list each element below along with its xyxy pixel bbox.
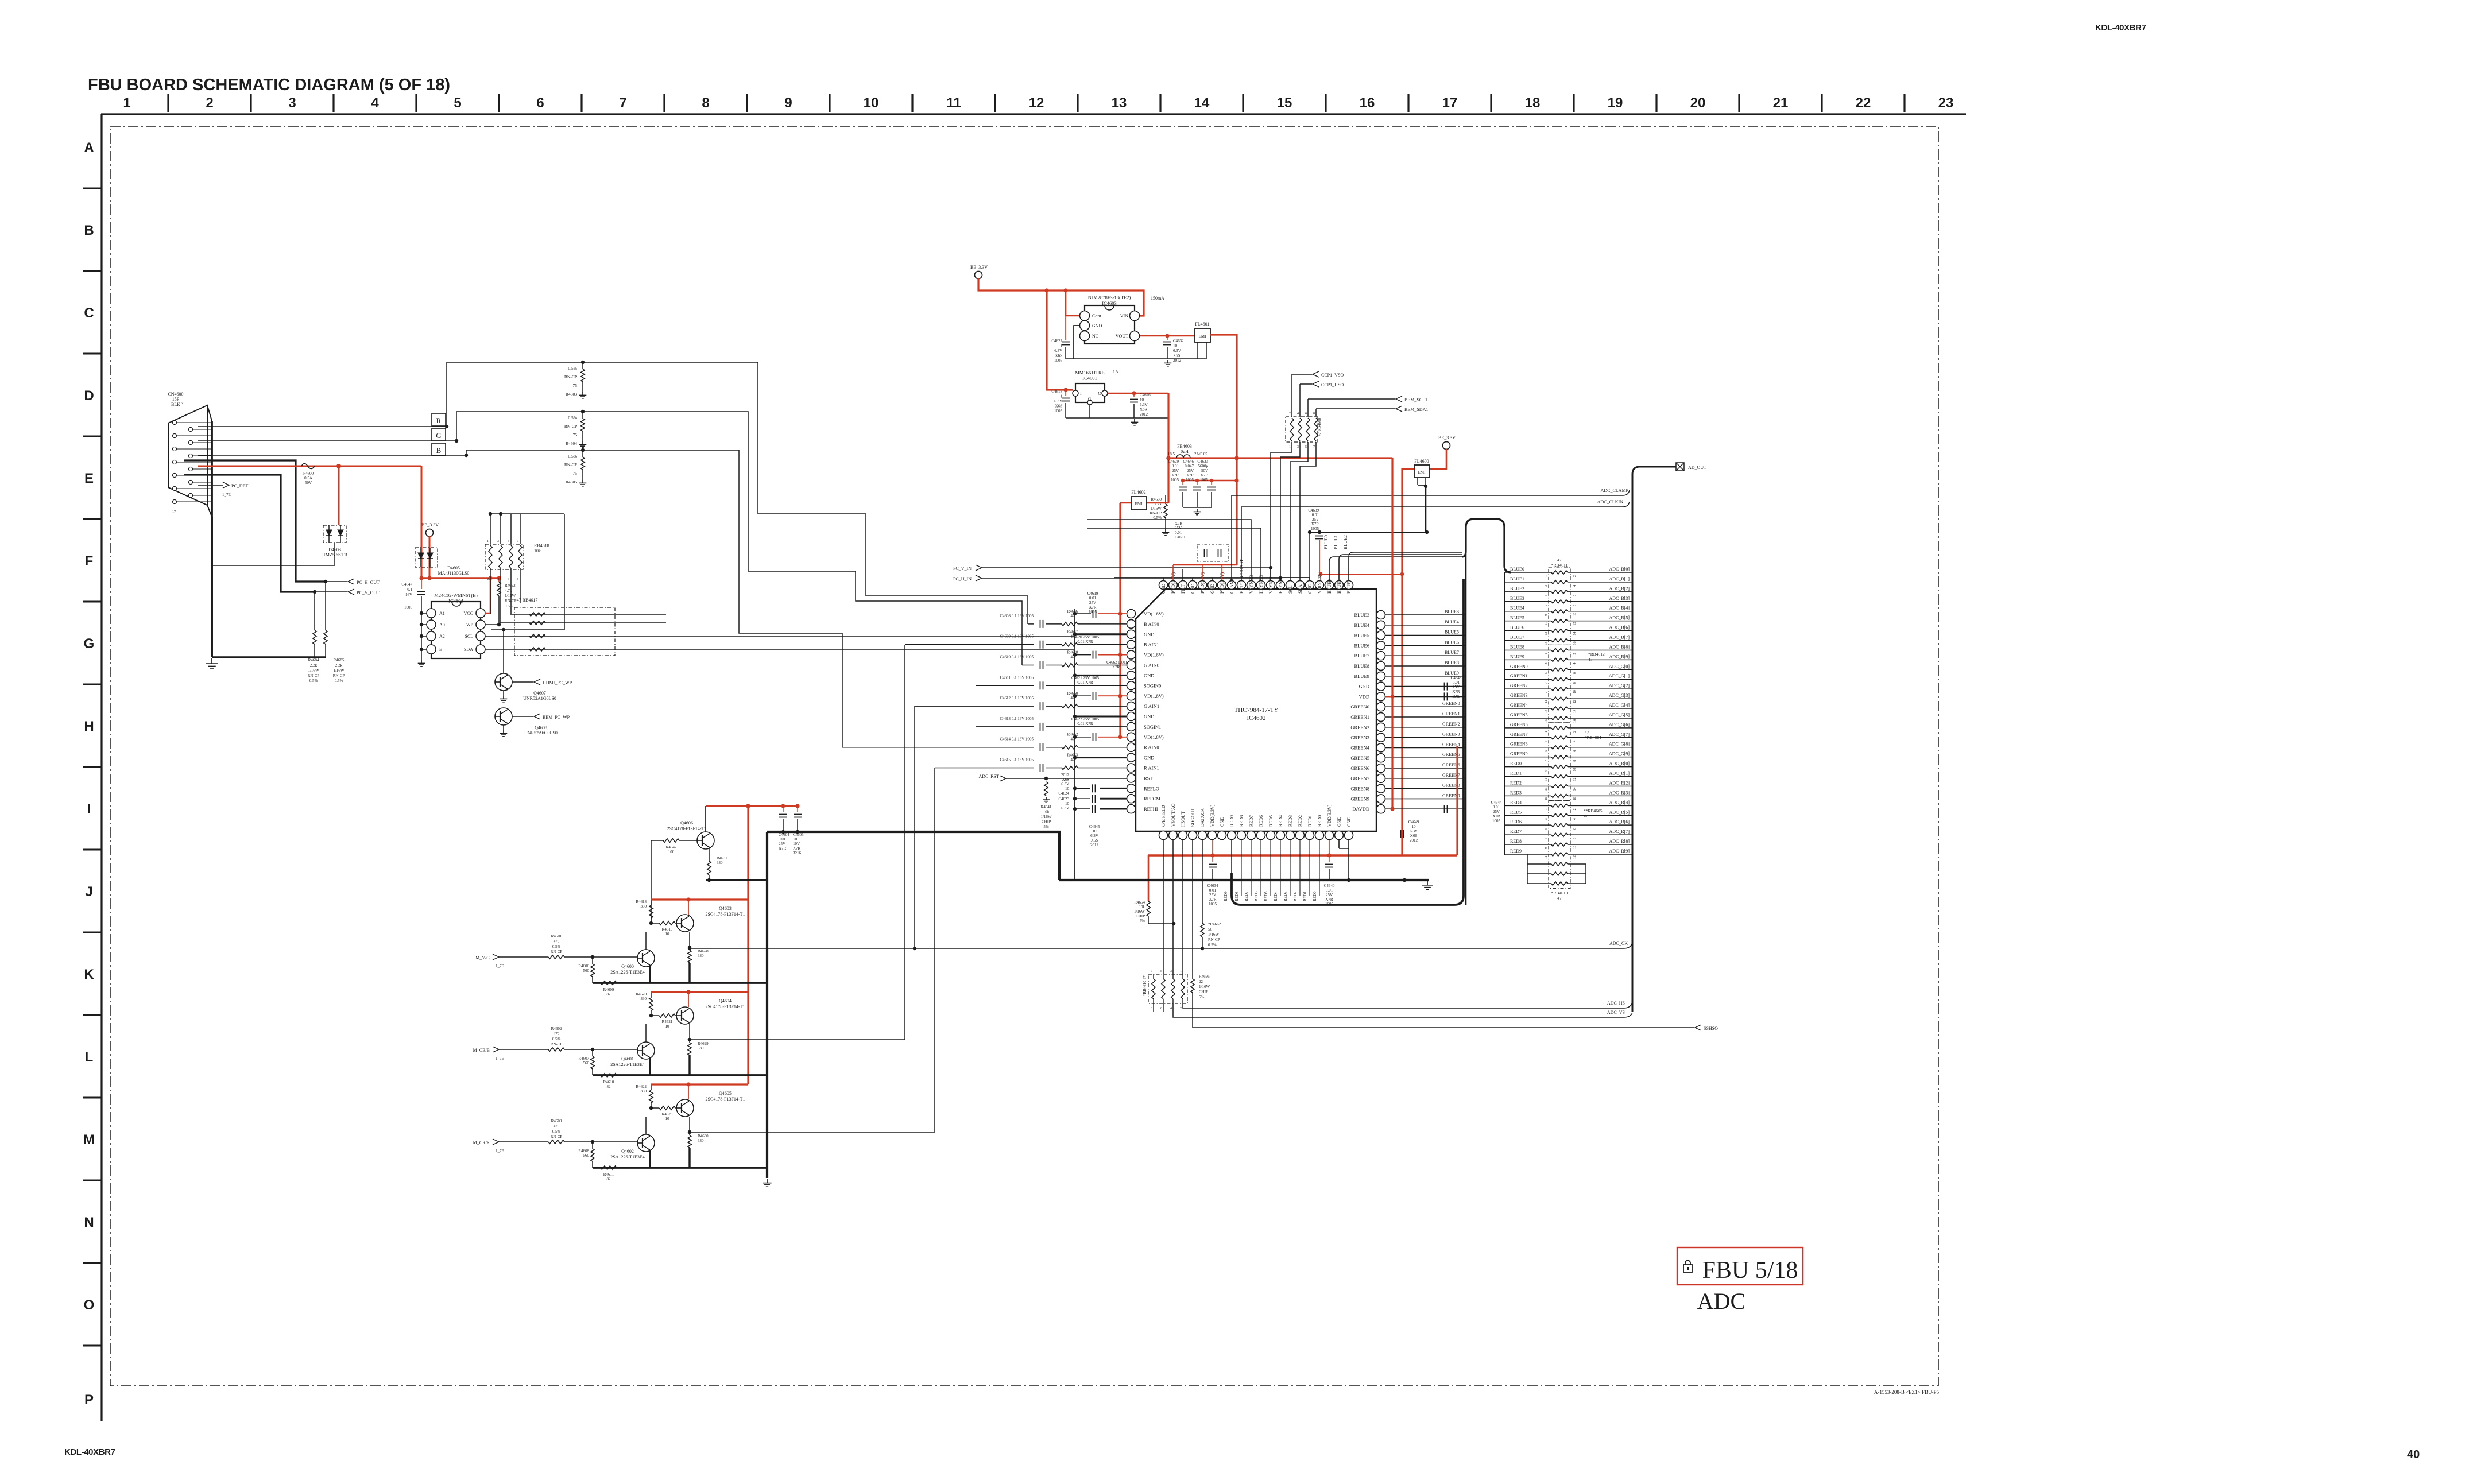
svg-text:R4685: R4685 [334, 658, 345, 662]
svg-text:17: 17 [1442, 95, 1458, 111]
svg-text:X7R: X7R [1492, 814, 1500, 819]
svg-text:F4600: F4600 [303, 471, 314, 476]
svg-text:RED2: RED2 [1510, 780, 1522, 785]
svg-text:ADC_R[0]: ADC_R[0] [1609, 761, 1630, 766]
svg-text:25V: 25V [1187, 468, 1194, 473]
svg-text:47: 47 [1071, 655, 1075, 660]
svg-text:1005: 1005 [1492, 819, 1501, 823]
svg-text:UNR52A6G0LS0: UNR52A6G0LS0 [524, 730, 558, 735]
svg-text:18.5: 18.5 [1168, 452, 1175, 456]
svg-text:RED3: RED3 [1288, 815, 1293, 827]
svg-text:GREEN1: GREEN1 [1510, 673, 1528, 679]
svg-text:47 RB4608: 47 RB4608 [1317, 417, 1322, 436]
svg-text:ADC: ADC [1697, 1288, 1745, 1314]
svg-text:X6S: X6S [1055, 404, 1063, 409]
svg-text:5: 5 [1305, 445, 1307, 449]
svg-text:CCP1_HSO: CCP1_HSO [1321, 382, 1344, 388]
svg-text:2012: 2012 [1090, 843, 1099, 847]
svg-text:RED6: RED6 [1254, 891, 1259, 901]
svg-text:O: O [84, 1297, 95, 1313]
svg-text:2: 2 [1289, 412, 1291, 416]
svg-text:9: 9 [1545, 847, 1548, 849]
svg-text:ADC_R[2]: ADC_R[2] [1609, 780, 1630, 785]
svg-text:X6S: X6S [1091, 838, 1098, 843]
svg-text:1: 1 [1061, 394, 1063, 399]
svg-text:ADC_B[9]: ADC_B[9] [1609, 654, 1630, 659]
svg-text:ADC_R[5]: ADC_R[5] [1609, 809, 1630, 815]
svg-text:GREEN5: GREEN5 [1350, 755, 1369, 761]
svg-text:6.3V: 6.3V [1410, 829, 1418, 834]
svg-text:GND: GND [1144, 631, 1154, 637]
svg-text:1/16W: 1/16W [308, 668, 319, 673]
svg-text:Q4601: Q4601 [621, 1056, 634, 1061]
svg-text:0.5%: 0.5% [568, 415, 577, 420]
svg-text:1: 1 [1545, 808, 1548, 810]
svg-text:100: 100 [668, 850, 675, 854]
svg-text:14: 14 [1573, 632, 1577, 636]
svg-text:X7R: X7R [1452, 689, 1460, 694]
svg-text:47: 47 [1585, 730, 1589, 735]
svg-text:2A/0.05: 2A/0.05 [1194, 452, 1207, 456]
svg-text:13: 13 [1112, 95, 1127, 111]
svg-text:82: 82 [607, 992, 611, 997]
svg-text:R4646: R4646 [1067, 609, 1078, 614]
svg-text:RED7: RED7 [1249, 815, 1254, 827]
svg-text:GREEN4: GREEN4 [1510, 703, 1528, 708]
svg-text:RED6: RED6 [1259, 815, 1264, 827]
svg-text:C4623: C4623 [1058, 797, 1069, 801]
svg-text:VD(1.8V): VD(1.8V) [1144, 652, 1164, 658]
svg-text:5%: 5% [1199, 995, 1205, 999]
svg-text:1_7E: 1_7E [496, 1149, 504, 1153]
svg-text:0.01 X7R: 0.01 X7R [1077, 722, 1093, 726]
svg-text:SOGIN0: SOGIN0 [1144, 683, 1161, 688]
svg-text:RN-CP: RN-CP [564, 374, 577, 379]
svg-text:470: 470 [554, 1124, 560, 1129]
svg-text:C4643: C4643 [1451, 676, 1462, 680]
svg-text:E: E [84, 471, 94, 486]
svg-text:1/16W: 1/16W [505, 594, 516, 598]
svg-text:R4641: R4641 [1041, 805, 1052, 809]
svg-text:MA4J1130GLS0: MA4J1130GLS0 [438, 571, 470, 576]
svg-text:C4647: C4647 [401, 582, 412, 587]
svg-text:1005: 1005 [1186, 478, 1194, 482]
svg-text:BLUE0: BLUE0 [1327, 579, 1332, 594]
svg-text:0.5%: 0.5% [552, 944, 561, 949]
svg-text:9: 9 [1545, 770, 1548, 772]
svg-text:47: 47 [1071, 634, 1075, 639]
svg-text:BE_3.3V: BE_3.3V [421, 522, 439, 528]
svg-text:11: 11 [1545, 778, 1548, 781]
svg-text:1_7E: 1_7E [496, 1056, 504, 1061]
svg-text:Q4604: Q4604 [719, 998, 732, 1003]
svg-text:RED1: RED1 [1303, 891, 1307, 901]
svg-text:1005: 1005 [404, 605, 413, 610]
svg-text:VSOUT/AO: VSOUT/AO [1171, 803, 1176, 827]
svg-text:**RB4605: **RB4605 [1584, 808, 1603, 813]
svg-text:G: G [436, 431, 441, 440]
svg-text:2: 2 [487, 578, 489, 581]
svg-text:6: 6 [1573, 750, 1577, 752]
svg-text:ADC_G[1]: ADC_G[1] [1609, 673, 1630, 679]
svg-text:R4692: R4692 [505, 583, 516, 588]
svg-text:ADC_CLKIN: ADC_CLKIN [1597, 499, 1624, 505]
svg-text:X6S: X6S [1173, 354, 1181, 358]
svg-text:*RB4611: *RB4611 [1551, 563, 1568, 568]
svg-text:UNR52A1G0LS0: UNR52A1G0LS0 [523, 696, 556, 701]
svg-text:B: B [436, 446, 442, 455]
svg-text:GND: GND [1346, 816, 1352, 827]
svg-text:M24C02-WMN6T(B): M24C02-WMN6T(B) [434, 592, 478, 598]
svg-text:PC_DET: PC_DET [231, 483, 248, 489]
svg-text:RED4: RED4 [1278, 815, 1283, 827]
svg-text:3: 3 [1297, 445, 1299, 449]
svg-text:R4623: R4623 [662, 1112, 673, 1117]
svg-text:1: 1 [1061, 344, 1063, 348]
svg-text:VDD(3.3V): VDD(3.3V) [1317, 571, 1322, 594]
svg-text:BLUE1: BLUE1 [1337, 579, 1342, 594]
svg-text:R4648: R4648 [1067, 650, 1078, 655]
svg-text:A: A [84, 140, 94, 156]
svg-text:1005: 1005 [1054, 409, 1063, 413]
svg-text:1005: 1005 [1311, 526, 1319, 531]
svg-text:6: 6 [1573, 595, 1577, 596]
svg-text:*RB4612: *RB4612 [1588, 652, 1605, 657]
svg-text:GREEN7: GREEN7 [1350, 776, 1369, 781]
svg-text:X7R: X7R [1089, 605, 1097, 610]
svg-text:RED9: RED9 [1510, 848, 1522, 854]
svg-text:15: 15 [1545, 797, 1548, 800]
svg-text:ADC_B[0]: ADC_B[0] [1609, 567, 1630, 572]
svg-text:B AIN1: B AIN1 [1144, 642, 1159, 648]
svg-text:VCC: VCC [464, 611, 473, 616]
svg-text:0.01: 0.01 [1209, 888, 1217, 893]
svg-text:GND: GND [1161, 583, 1166, 594]
svg-text:AD_OUT: AD_OUT [1688, 465, 1706, 470]
svg-text:47: 47 [1557, 896, 1562, 901]
svg-text:*R4662: *R4662 [1208, 922, 1221, 927]
svg-text:CCP1_VSO: CCP1_VSO [1321, 373, 1344, 378]
svg-text:0.01 X7R: 0.01 X7R [1077, 640, 1093, 644]
svg-text:13: 13 [1545, 787, 1548, 791]
svg-text:ADC_CLAMP: ADC_CLAMP [1601, 488, 1629, 493]
svg-text:1/16W: 1/16W [1040, 815, 1051, 819]
svg-text:6.3V: 6.3V [1054, 348, 1062, 353]
svg-text:R4647: R4647 [1067, 630, 1078, 634]
svg-text:2SC4178-F13F14-T1: 2SC4178-F13F14-T1 [706, 1004, 745, 1009]
svg-text:R4607: R4607 [578, 1056, 589, 1061]
svg-text:GREEN9: GREEN9 [1510, 751, 1528, 757]
svg-text:1: 1 [1545, 653, 1548, 654]
svg-text:N: N [84, 1215, 94, 1230]
svg-text:SCL: SCL [465, 634, 473, 639]
svg-text:2012: 2012 [1140, 412, 1148, 417]
svg-text:X7R: X7R [1175, 521, 1183, 526]
svg-text:I: I [87, 801, 91, 817]
svg-text:C4621 25V 1005: C4621 25V 1005 [1071, 676, 1100, 680]
svg-text:M_Y/G: M_Y/G [475, 955, 490, 960]
svg-text:ADC_B[4]: ADC_B[4] [1609, 606, 1630, 611]
svg-text:6.3V: 6.3V [1173, 348, 1181, 353]
svg-text:B: B [84, 223, 94, 238]
svg-text:Q4600: Q4600 [621, 964, 634, 969]
svg-text:X7R: X7R [793, 846, 801, 851]
svg-text:47: 47 [1584, 813, 1588, 819]
svg-text:BLUE6: BLUE6 [1510, 625, 1524, 630]
svg-text:PC_H_OUT: PC_H_OUT [357, 580, 380, 585]
svg-text:REFCM: REFCM [1144, 796, 1160, 801]
svg-text:IC4602: IC4602 [1247, 715, 1266, 722]
svg-text:ADC_R[1]: ADC_R[1] [1609, 771, 1630, 776]
svg-text:6.3V: 6.3V [1061, 806, 1069, 811]
svg-text:2SA1226-T1E3E4: 2SA1226-T1E3E4 [610, 970, 645, 975]
svg-text:2: 2 [1573, 575, 1577, 577]
svg-text:GREEN8: GREEN8 [1510, 742, 1528, 747]
svg-text:330: 330 [641, 1089, 647, 1094]
svg-text:C4624: C4624 [1058, 791, 1069, 796]
svg-text:6.3V: 6.3V [1061, 782, 1069, 786]
svg-text:0.5%: 0.5% [552, 1129, 561, 1134]
svg-text:G: G [84, 636, 95, 652]
svg-text:*RB4604: *RB4604 [1585, 735, 1601, 740]
svg-text:12: 12 [1029, 95, 1044, 111]
svg-text:ADC_G[9]: ADC_G[9] [1609, 751, 1630, 757]
svg-text:330: 330 [698, 954, 704, 958]
svg-text:EMI: EMI [1418, 470, 1426, 475]
svg-text:50V: 50V [305, 481, 312, 485]
svg-text:X6S: X6S [1410, 834, 1418, 838]
svg-text:F: F [85, 553, 94, 569]
svg-text:SDA: SDA [464, 647, 473, 652]
svg-text:47: 47 [1071, 614, 1075, 618]
svg-text:47: 47 [1557, 557, 1562, 563]
svg-text:R AIN0: R AIN0 [1144, 745, 1159, 750]
svg-text:GND: GND [1210, 583, 1215, 594]
svg-text:2SC4178-F13F14-T1: 2SC4178-F13F14-T1 [706, 1096, 745, 1102]
svg-text:1_7E: 1_7E [496, 964, 504, 968]
svg-text:10: 10 [1065, 801, 1070, 806]
svg-text:C4644: C4644 [1491, 800, 1502, 805]
svg-text:22: 22 [1856, 95, 1871, 111]
svg-text:6.3V: 6.3V [1054, 399, 1062, 404]
svg-text:GREEN3: GREEN3 [1350, 735, 1369, 741]
svg-text:470: 470 [554, 1032, 560, 1036]
svg-text:I: I [1080, 391, 1082, 396]
svg-text:EMI: EMI [1199, 334, 1207, 339]
svg-text:1/16W: 1/16W [1134, 909, 1145, 914]
svg-text:A2: A2 [439, 634, 445, 639]
svg-text:ADC_G[0]: ADC_G[0] [1609, 664, 1630, 669]
svg-text:RED8: RED8 [1510, 839, 1522, 844]
svg-text:Cont: Cont [1092, 313, 1101, 319]
svg-text:4: 4 [1573, 818, 1577, 820]
svg-text:5: 5 [508, 540, 509, 543]
svg-text:3: 3 [1545, 585, 1548, 587]
svg-text:R4629: R4629 [698, 1041, 709, 1046]
svg-text:ADC_HS: ADC_HS [1607, 1001, 1625, 1006]
svg-text:1/16W: 1/16W [1208, 932, 1219, 937]
svg-text:15: 15 [1545, 642, 1548, 645]
svg-text:RN-CP: RN-CP [564, 462, 577, 467]
svg-text:VD(1.8V): VD(1.8V) [1144, 611, 1164, 617]
svg-text:FILT: FILT [1181, 584, 1186, 594]
svg-text:SCL: SCL [1288, 585, 1293, 594]
svg-text:FB4603: FB4603 [1177, 444, 1192, 449]
svg-text:Q4608: Q4608 [535, 725, 547, 730]
svg-text:5: 5 [1545, 672, 1548, 674]
svg-text:560: 560 [583, 1061, 590, 1065]
svg-text:0.01: 0.01 [779, 837, 786, 842]
svg-text:BLUE3: BLUE3 [1354, 612, 1369, 618]
svg-text:BLUE4: BLUE4 [1510, 606, 1524, 611]
svg-text:SOGIN1: SOGIN1 [1144, 724, 1161, 730]
svg-text:2: 2 [206, 95, 213, 111]
svg-text:7: 7 [619, 95, 626, 111]
svg-text:14: 14 [1573, 787, 1577, 791]
svg-text:0.01: 0.01 [1172, 464, 1179, 468]
svg-text:8: 8 [1573, 760, 1577, 762]
svg-text:RED8: RED8 [1234, 891, 1239, 901]
svg-text:PC_H_IN: PC_H_IN [953, 576, 972, 582]
svg-text:C4627: C4627 [1051, 339, 1062, 343]
svg-text:2: 2 [1180, 1007, 1182, 1010]
svg-text:10: 10 [1140, 398, 1144, 402]
svg-text:J: J [85, 884, 92, 900]
svg-text:R4628: R4628 [698, 949, 709, 954]
svg-text:2: 2 [1573, 731, 1577, 733]
svg-text:0.01: 0.01 [1175, 530, 1182, 535]
svg-text:R4619: R4619 [662, 927, 673, 932]
svg-text:GREEN2: GREEN2 [1350, 724, 1369, 730]
svg-text:RED5: RED5 [1264, 891, 1268, 901]
svg-text:2SA1226-T1E3E4: 2SA1226-T1E3E4 [610, 1154, 645, 1160]
svg-text:BLUE9: BLUE9 [1354, 673, 1369, 679]
svg-text:23: 23 [1938, 95, 1954, 111]
svg-text:RN-CP: RN-CP [551, 1042, 563, 1047]
svg-text:10: 10 [665, 932, 670, 936]
svg-text:4: 4 [1573, 741, 1577, 742]
svg-text:HDMI_PC_WP: HDMI_PC_WP [543, 680, 572, 685]
svg-text:*RB4610 47: *RB4610 47 [1143, 975, 1147, 996]
svg-text:470: 470 [554, 939, 560, 944]
svg-text:1: 1 [1545, 575, 1548, 577]
svg-text:14: 14 [1573, 710, 1577, 713]
svg-text:50V: 50V [1201, 468, 1208, 473]
svg-text:BLUE1: BLUE1 [1510, 576, 1524, 582]
svg-text:ADC_G[6]: ADC_G[6] [1609, 722, 1630, 727]
svg-text:10V: 10V [793, 842, 800, 846]
svg-text:25V: 25V [1493, 809, 1500, 814]
svg-text:X6S: X6S [1055, 354, 1063, 358]
svg-text:ADC_G[8]: ADC_G[8] [1609, 742, 1630, 747]
svg-text:RN-CP: RN-CP [564, 424, 577, 429]
svg-text:C4620 25V 1005: C4620 25V 1005 [1071, 635, 1100, 640]
svg-text:A0: A0 [439, 622, 445, 627]
svg-text:9: 9 [1545, 614, 1548, 616]
svg-text:GND: GND [1337, 816, 1342, 827]
svg-text:2.2k: 2.2k [335, 663, 343, 668]
svg-text:BLUE4: BLUE4 [1445, 619, 1459, 625]
svg-text:R4630: R4630 [698, 1134, 709, 1138]
svg-text:0.5%: 0.5% [552, 1037, 561, 1041]
svg-text:BLUE4: BLUE4 [1354, 622, 1370, 628]
svg-text:BLUE0: BLUE0 [1323, 535, 1329, 549]
svg-text:10: 10 [1573, 690, 1577, 693]
svg-text:IC4603: IC4603 [1102, 300, 1117, 306]
svg-text:R4696: R4696 [1199, 974, 1210, 979]
svg-text:RST: RST [1144, 775, 1153, 781]
svg-text:R4618: R4618 [636, 900, 647, 904]
svg-text:150mA: 150mA [1151, 296, 1164, 301]
svg-text:GREEN0: GREEN0 [1442, 701, 1460, 706]
svg-text:R4601: R4601 [551, 934, 562, 939]
svg-text:C4626: C4626 [1140, 393, 1151, 397]
svg-text:0uH: 0uH [1181, 449, 1189, 454]
svg-text:BLUE5: BLUE5 [1445, 630, 1459, 635]
svg-text:2: 2 [1573, 808, 1577, 810]
svg-text:0.5A: 0.5A [304, 476, 312, 481]
svg-text:DAVDD: DAVDD [1352, 806, 1369, 812]
svg-text:10: 10 [1065, 786, 1070, 791]
svg-text:WP: WP [466, 622, 474, 627]
svg-text:1/16W: 1/16W [333, 668, 344, 673]
svg-text:EMI: EMI [1135, 502, 1143, 506]
svg-text:5: 5 [1160, 970, 1162, 973]
svg-text:8: 8 [1151, 1007, 1152, 1010]
svg-text:5: 5 [1545, 750, 1548, 752]
svg-text:R4610: R4610 [603, 1080, 614, 1084]
svg-text:R4606: R4606 [578, 964, 589, 968]
svg-text:22: 22 [1199, 979, 1203, 984]
svg-text:GREEN6: GREEN6 [1350, 765, 1369, 771]
svg-text:C4615 0.1 16V 1005: C4615 0.1 16V 1005 [1000, 758, 1034, 762]
svg-text:11: 11 [946, 95, 961, 111]
svg-text:16: 16 [1573, 642, 1577, 645]
svg-text:A1: A1 [439, 611, 445, 616]
svg-text:Q4607: Q4607 [533, 691, 546, 696]
svg-text:7: 7 [1545, 682, 1548, 684]
svg-text:RB4618: RB4618 [534, 543, 549, 548]
svg-text:1/16W: 1/16W [1199, 985, 1210, 989]
svg-text:VDD: VDD [1359, 693, 1369, 699]
svg-text:CHIP: CHIP [1042, 820, 1051, 824]
svg-text:X7R: X7R [779, 846, 787, 851]
svg-text:C4613 0.1 16V 1005: C4613 0.1 16V 1005 [1000, 716, 1034, 721]
svg-text:VDD(3.3V): VDD(3.3V) [1327, 804, 1332, 827]
svg-text:BEM_SCL1: BEM_SCL1 [1404, 397, 1427, 402]
svg-text:Q4605: Q4605 [719, 1091, 732, 1096]
svg-text:R4654: R4654 [1134, 900, 1145, 905]
svg-text:ADC_G[3]: ADC_G[3] [1609, 693, 1630, 698]
svg-text:R4684: R4684 [308, 658, 319, 662]
svg-text:13: 13 [1545, 632, 1548, 636]
svg-text:560: 560 [583, 1153, 590, 1158]
svg-text:GREEN1: GREEN1 [1442, 711, 1460, 716]
svg-text:C: C [84, 305, 94, 321]
svg-text:8: 8 [702, 95, 709, 111]
svg-text:3: 3 [288, 95, 296, 111]
svg-text:C4608 0.1 16V 1005: C4608 0.1 16V 1005 [1000, 614, 1034, 618]
svg-text:R4605: R4605 [566, 479, 577, 485]
svg-text:R4642: R4642 [666, 845, 677, 850]
svg-text:MM1661JTRE: MM1661JTRE [1075, 370, 1104, 375]
svg-text:6: 6 [508, 578, 509, 581]
svg-text:M_CR/R: M_CR/R [473, 1140, 490, 1145]
svg-text:ADC_B[5]: ADC_B[5] [1609, 615, 1630, 621]
svg-text:1005: 1005 [1089, 610, 1097, 614]
svg-text:RED5: RED5 [1510, 809, 1522, 815]
svg-text:R4621: R4621 [662, 1020, 673, 1024]
